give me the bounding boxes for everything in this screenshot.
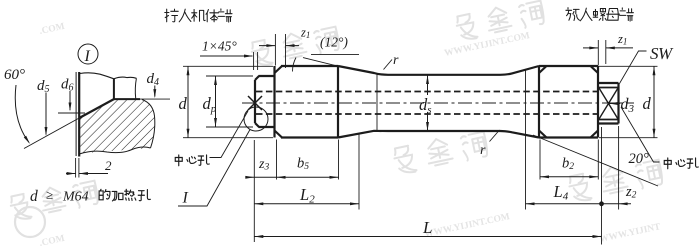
svg-text:(12°): (12°) [320,35,348,50]
svg-text:d: d [643,94,652,113]
taper edge line left [376,73,378,131]
dimension d left [187,66,189,137]
dimension d right extension lines [599,66,658,137]
svg-text:L: L [422,218,432,237]
thread root dashed line upper [256,91,597,93]
detail 60deg countersink chamfer [79,99,114,118]
fillet r label top [384,60,393,70]
centerline [242,102,634,104]
right end face [617,83,619,124]
counterbore side wall right break edge [135,78,136,98]
thread root dashed line lower [256,113,597,115]
svg-text:r: r [480,143,486,158]
detail bottom break line [79,147,150,154]
detail label circled I [78,44,98,64]
dimension L2 extension line right [358,134,360,210]
dimension d3 leader arrow [609,103,620,105]
chamfer 1x45 extension lines [254,52,258,70]
left end face chamfers [255,76,259,127]
detail top surface break line [80,73,136,79]
dimension L4 and z2 common extension lines [602,126,619,245]
svg-text:d: d [179,94,188,113]
dimension z1 left [259,45,275,47]
counterbore mouth edge vertical [113,79,115,99]
20 degree chamfer construction line and label [533,135,658,186]
svg-text:d: d [30,188,38,205]
svg-text:20°: 20° [629,151,650,167]
end piece inner chamfer lines [598,88,619,120]
dimension 2 (wall) dim line and label [66,173,76,175]
dimension b2 extension lines [540,140,598,180]
svg-text:r: r [393,53,399,68]
right thread start edge [538,66,540,138]
dimension z1 left extension lines [275,34,285,68]
dimension z3/b5 extension lines [254,140,338,243]
leader arc for 60 degrees [15,85,29,143]
end piece outer lines [598,83,619,124]
left center hole X mark [248,96,262,110]
dimension z3 and b5 dim line [247,176,339,178]
dimension z1 right extension lines [598,40,606,66]
detail hole wall thin line [75,72,77,156]
right thread chamfers [539,66,598,138]
overall length L [254,236,601,238]
end piece X flats mark [599,88,618,119]
60 degree cone construction line [24,118,79,149]
dimension ds [427,75,429,95]
counterbore floor line [114,98,140,100]
top taper and shank line [338,66,539,75]
center hole label left [175,155,209,166]
shoulder edge [273,66,275,138]
detail view hatching [79,99,155,153]
left thread end edge [337,66,339,138]
detail I indicator circle [244,107,268,131]
dimension L2 [254,203,359,205]
dimension dp [215,76,217,127]
left thread major diameter lines [281,66,338,138]
dimension b2 [540,176,598,178]
dimension d4 extension line [140,98,170,100]
taper edge / L4 extension line right [525,70,527,210]
svg-text:M64: M64 [62,190,89,205]
dimension L4 with dot termination [526,203,632,205]
left end face [254,80,256,123]
dimension d right [653,66,655,137]
dimension 2 (wall) extension lines [75,158,77,178]
12 degree taper construction [311,53,359,55]
right thread end edge [597,66,599,138]
svg-text:2: 2 [105,158,112,173]
bottom taper and shank line [338,131,539,138]
fillet r label right [490,130,500,142]
svg-text:≥: ≥ [46,187,53,202]
dimension z1 right [583,47,598,49]
dp cylinder outline [259,76,276,127]
dimension dp extension lines [206,76,253,127]
detail hole wall thick line [78,72,80,157]
header: screw-in machine-body end [165,9,232,22]
right thread major diameter lines [539,66,598,138]
dimension z2 [619,202,628,205]
svg-text:I: I [84,48,91,65]
center hole label right [664,158,698,169]
svg-text:1×45°: 1×45° [202,39,237,54]
detail lower-right break line [142,100,155,149]
svg-text:60°: 60° [4,67,25,83]
dimension d left extension lines [183,66,273,137]
header: screw-in nut end [566,8,634,22]
svg-text:I: I [182,190,189,207]
left thread lead-in chamfers [275,66,283,138]
svg-text:SW: SW [650,44,674,63]
